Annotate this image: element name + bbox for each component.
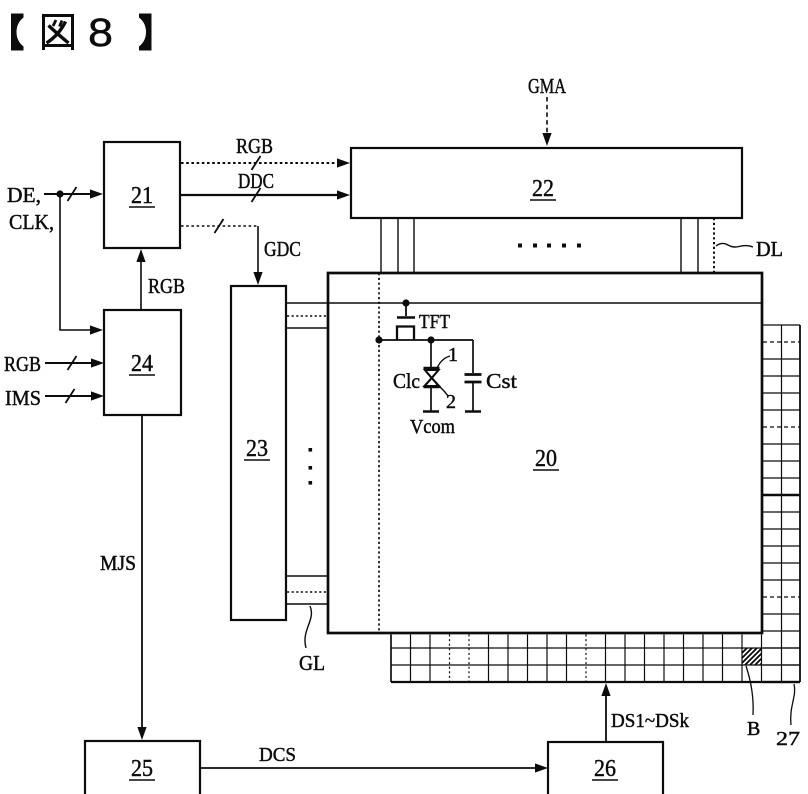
svg-text:20: 20: [535, 446, 557, 472]
svg-text:25: 25: [131, 756, 153, 782]
svg-text:DS1~DSk: DS1~DSk: [611, 710, 689, 732]
svg-text:RGB: RGB: [236, 134, 273, 158]
svg-text:2: 2: [446, 391, 456, 413]
svg-text:IMS: IMS: [5, 386, 41, 410]
svg-text:Cst: Cst: [486, 369, 517, 393]
svg-text:Vcom: Vcom: [410, 416, 455, 438]
svg-text:1: 1: [448, 344, 458, 366]
svg-text:8: 8: [88, 11, 113, 55]
svg-text:GMA: GMA: [528, 74, 567, 98]
svg-text:CLK,: CLK,: [9, 210, 54, 234]
svg-text:TFT: TFT: [419, 311, 450, 333]
svg-text:MJS: MJS: [100, 551, 136, 575]
svg-text:RGB: RGB: [148, 274, 185, 298]
svg-text:21: 21: [131, 183, 153, 209]
svg-text:DE,: DE,: [7, 183, 41, 207]
svg-text:26: 26: [594, 756, 616, 782]
svg-text:GL: GL: [299, 651, 325, 675]
svg-text:B: B: [747, 718, 760, 740]
svg-text:24: 24: [131, 351, 153, 377]
svg-text:DDC: DDC: [238, 169, 274, 193]
svg-text:23: 23: [246, 436, 268, 462]
svg-text:27: 27: [776, 728, 800, 750]
svg-text:GDC: GDC: [264, 237, 301, 261]
svg-text:DCS: DCS: [259, 744, 296, 766]
svg-text:RGB: RGB: [4, 352, 41, 376]
svg-text:22: 22: [532, 176, 554, 202]
svg-text:Clc: Clc: [393, 369, 420, 393]
svg-text:DL: DL: [756, 237, 783, 261]
